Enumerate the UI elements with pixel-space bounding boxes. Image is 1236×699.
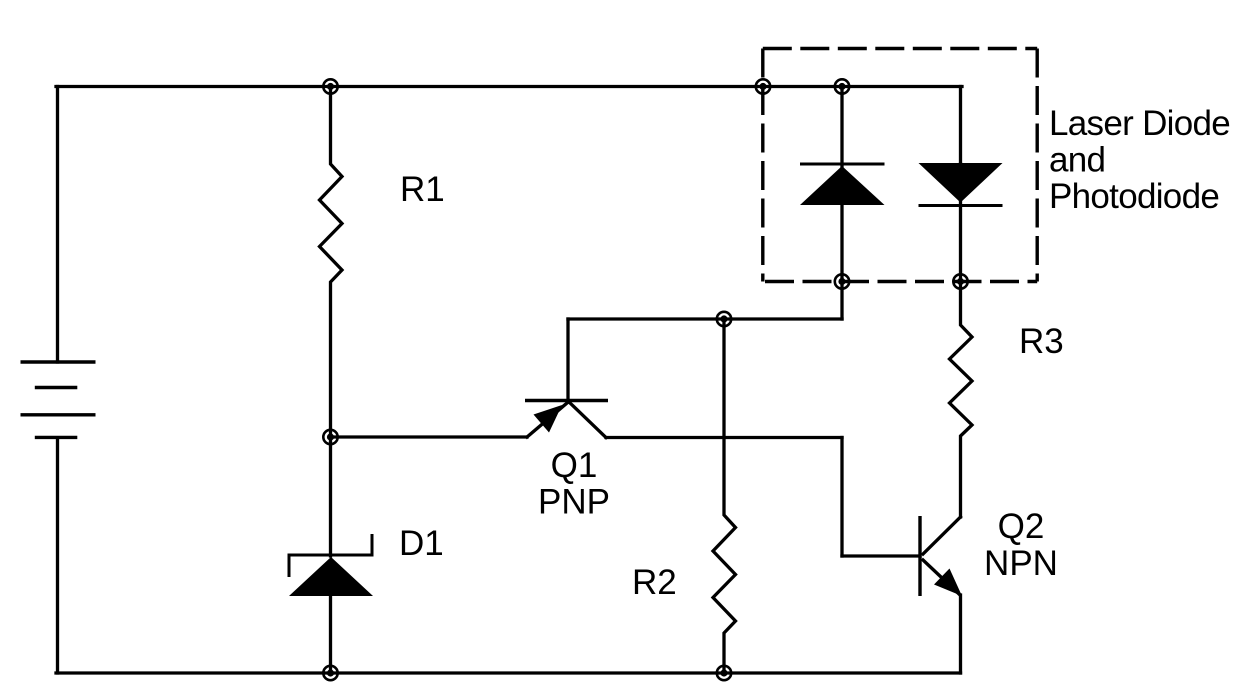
wire left rail upper [56, 87, 59, 363]
wire bottom rail [56, 671, 961, 674]
wire right drop to Q2 base [840, 438, 843, 557]
svg-text:PNP: PNP [538, 483, 610, 522]
node bottom rail / R2 [717, 666, 731, 680]
wire left rail lower [56, 438, 59, 673]
transistor Q1 PNP [525, 319, 608, 438]
svg-text:R1: R1 [400, 170, 445, 209]
label Laser Diode and Photodiode [1049, 104, 1230, 216]
wire photodiode top feed [959, 87, 962, 165]
node base run / R2 [717, 312, 731, 326]
svg-text:Q2: Q2 [998, 507, 1045, 546]
diode D1 (zener) [289, 437, 373, 673]
svg-text:R2: R2 [632, 563, 677, 602]
svg-text:NPN: NPN [984, 544, 1058, 583]
node R1 / D1 junction [323, 430, 337, 444]
wire Q1 collector run [606, 436, 842, 439]
resistor R2 [713, 319, 736, 673]
svg-text:Laser Diode: Laser Diode [1049, 104, 1230, 143]
node laser diode / box bottom [835, 274, 849, 288]
node bottom rail / D1 [323, 666, 337, 680]
svg-text:D1: D1 [399, 524, 444, 563]
svg-text:Q1: Q1 [551, 446, 598, 485]
node photodiode / box bottom [953, 274, 967, 288]
resistor R3 [950, 282, 973, 518]
wire laser diode lower lead [840, 282, 843, 320]
battery B1 [21, 362, 96, 437]
svg-text:R3: R3 [1019, 322, 1064, 361]
node top rail / laser diode [835, 79, 849, 93]
dashed box laser module [763, 49, 1037, 282]
wire Q1 base run [568, 317, 842, 320]
node top rail / R1 [323, 79, 337, 93]
resistor R1 [320, 87, 343, 438]
wire emitter feed [331, 435, 528, 438]
transistor Q2 NPN [920, 516, 962, 673]
wire Q2 base feed [842, 554, 920, 557]
wire top rail [56, 85, 962, 88]
svg-text:Photodiode: Photodiode [1049, 177, 1219, 216]
svg-text:and: and [1049, 141, 1105, 180]
photodiode PD1 [919, 163, 1003, 282]
laser diode LD1 [800, 87, 885, 282]
node top rail / box edge [756, 79, 770, 93]
